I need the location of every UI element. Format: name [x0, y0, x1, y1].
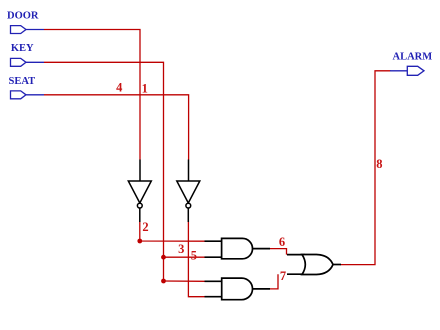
wire net8 OR output to ALARM	[341, 71, 391, 265]
junction dot net5	[161, 255, 166, 260]
wire SEAT to inverter U2	[44, 95, 189, 160]
svg-text:4: 4	[116, 81, 123, 95]
svg-text:7: 7	[280, 269, 286, 283]
junction dot KEY/AND2	[161, 279, 166, 284]
wire net7 AND2 output to OR input B	[270, 274, 279, 289]
wire net2/3 inverter U1 output to AND1 input A	[140, 222, 205, 242]
svg-text:1: 1	[142, 82, 148, 96]
wire inverter U2 output to AND2 input B	[188, 222, 204, 297]
svg-text:3: 3	[178, 242, 184, 256]
svg-text:KEY: KEY	[11, 43, 34, 54]
junction dot net2/3	[137, 239, 142, 244]
input connector SEAT	[11, 91, 45, 99]
wire KEY tap to AND2 input A	[164, 280, 205, 282]
OR gate	[287, 255, 341, 275]
AND gate 1	[205, 238, 271, 258]
output connector ALARM	[390, 66, 424, 75]
wire net5 KEY tap to AND1 input B	[164, 256, 206, 258]
svg-text:DOOR: DOOR	[7, 10, 39, 21]
wire net1 DOOR to inverter U1	[44, 30, 140, 160]
input connector DOOR	[11, 26, 45, 34]
svg-text:ALARM: ALARM	[393, 51, 433, 62]
svg-text:2: 2	[142, 220, 148, 234]
svg-text:6: 6	[279, 235, 285, 249]
svg-text:5: 5	[191, 249, 197, 263]
svg-text:8: 8	[376, 157, 382, 171]
wire net4 KEY vertical bus	[44, 62, 164, 281]
AND gate 2	[205, 278, 271, 300]
wire net6 AND1 output to OR input A	[270, 249, 287, 255]
inverter U2	[177, 160, 200, 223]
inverter U1	[128, 160, 151, 223]
svg-text:SEAT: SEAT	[9, 76, 36, 87]
input connector KEY	[11, 58, 45, 66]
